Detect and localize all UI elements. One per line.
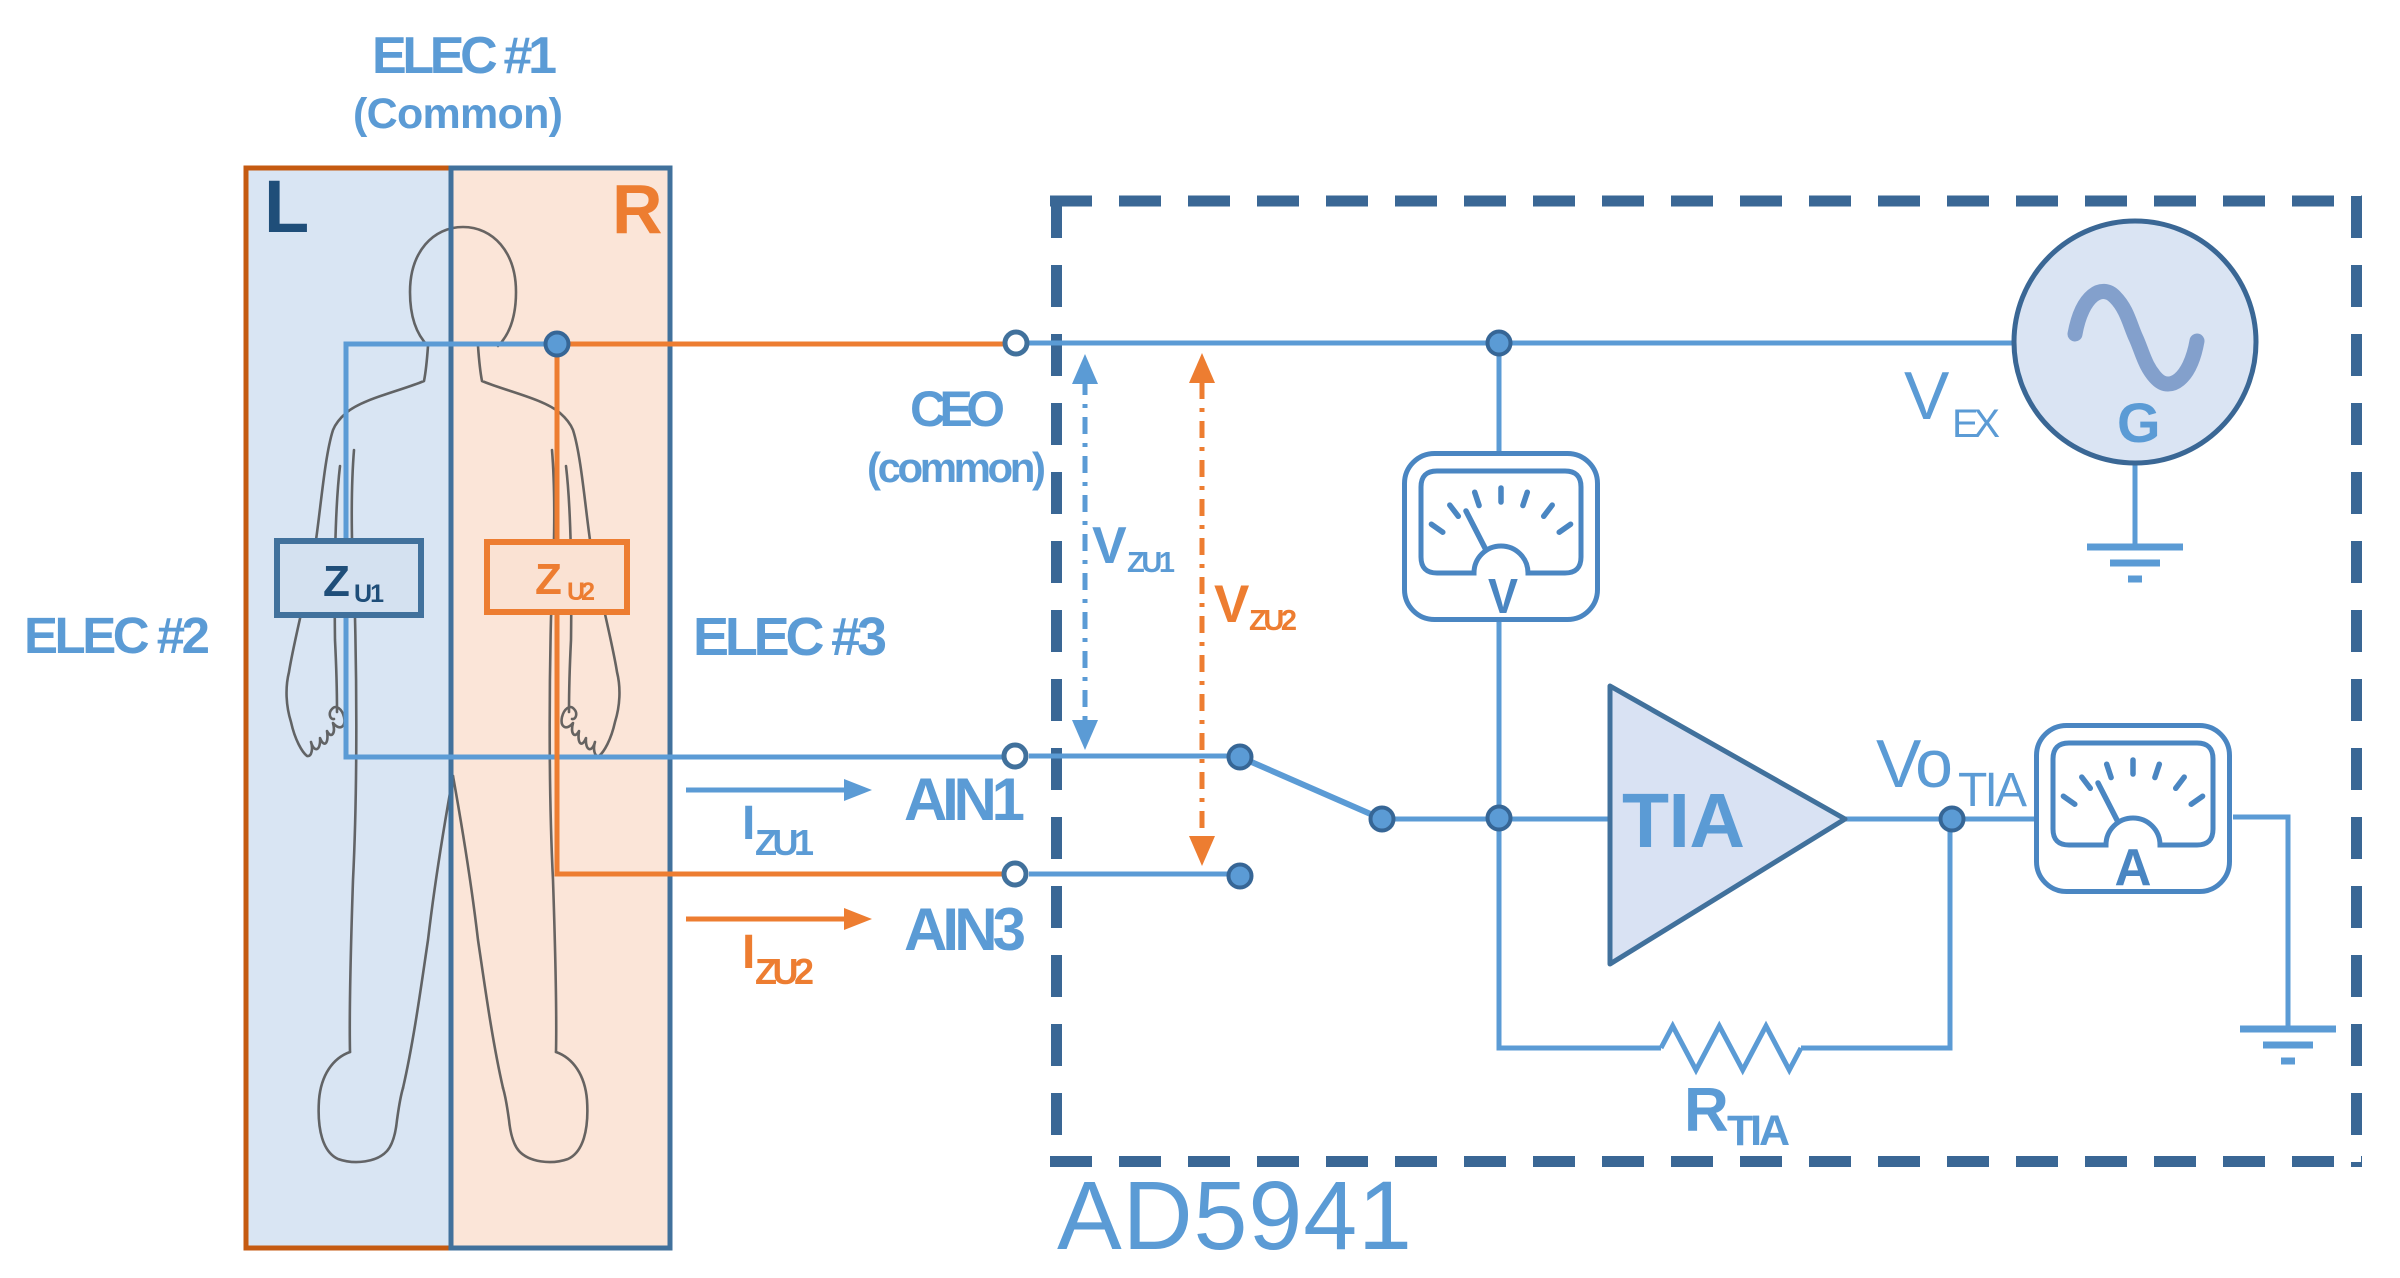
svg-text:(common): (common) xyxy=(867,444,1046,491)
svg-text:ZU1: ZU1 xyxy=(755,822,814,863)
svg-text:R: R xyxy=(612,170,663,248)
svg-text:AIN1: AIN1 xyxy=(904,766,1025,833)
svg-text:ELEC #3: ELEC #3 xyxy=(693,607,887,667)
svg-text:TIA: TIA xyxy=(1622,778,1745,864)
svg-text:ZU2: ZU2 xyxy=(1249,605,1297,637)
svg-text:I: I xyxy=(742,797,755,850)
svg-text:AIN3: AIN3 xyxy=(904,896,1026,963)
svg-text:G: G xyxy=(2117,391,2161,454)
svg-text:Z: Z xyxy=(535,555,562,604)
svg-text:AD5941: AD5941 xyxy=(1057,1161,1412,1270)
svg-text:CEO: CEO xyxy=(910,381,1005,437)
svg-text:ELEC #1: ELEC #1 xyxy=(372,27,557,85)
svg-text:TIA: TIA xyxy=(1958,764,2027,817)
svg-text:U2: U2 xyxy=(567,578,595,606)
svg-text:ZU2: ZU2 xyxy=(755,951,814,992)
svg-text:Vo: Vo xyxy=(1876,726,1953,802)
svg-text:ELEC #2: ELEC #2 xyxy=(24,607,210,664)
svg-text:A: A xyxy=(2115,839,2152,897)
svg-text:R: R xyxy=(1684,1076,1729,1145)
svg-text:V: V xyxy=(1092,517,1127,575)
svg-text:TIA: TIA xyxy=(1727,1107,1790,1155)
svg-text:V: V xyxy=(1488,570,1518,624)
svg-text:U1: U1 xyxy=(354,580,384,608)
svg-text:EX: EX xyxy=(1952,402,2000,446)
svg-text:ZU1: ZU1 xyxy=(1127,547,1175,579)
svg-text:V: V xyxy=(1214,575,1249,634)
svg-text:L: L xyxy=(264,165,309,248)
svg-text:I: I xyxy=(742,926,755,979)
svg-text:(Common): (Common) xyxy=(353,90,563,138)
svg-text:Z: Z xyxy=(323,557,350,606)
svg-text:V: V xyxy=(1904,358,1950,434)
